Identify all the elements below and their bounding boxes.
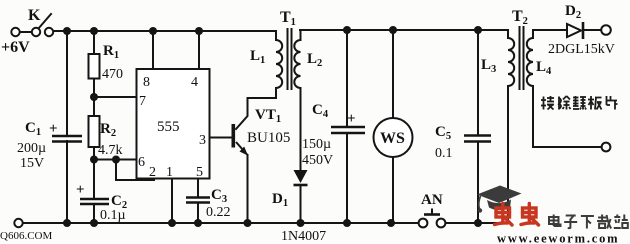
transformer T1 core xyxy=(287,28,289,90)
IC 555 box U1 xyxy=(137,69,210,179)
svg-text:450V: 450V xyxy=(302,153,333,168)
svg-text:1: 1 xyxy=(166,165,173,180)
svg-text:0.1: 0.1 xyxy=(435,146,453,161)
svg-text:D1: D1 xyxy=(272,191,288,209)
char pian xyxy=(607,96,618,110)
svg-text:L2: L2 xyxy=(307,51,322,69)
output terminal top xyxy=(601,25,611,35)
capacitor C2 xyxy=(80,199,109,204)
wire WS bottom xyxy=(392,157,394,223)
svg-text:470: 470 xyxy=(102,67,123,82)
svg-text:+6V: +6V xyxy=(1,39,30,56)
wire C4 top xyxy=(346,30,348,126)
transformer T1 winding L2 xyxy=(294,30,300,88)
capacitor C4 xyxy=(331,127,365,133)
switch K lever xyxy=(38,14,51,29)
svg-text:15V: 15V xyxy=(20,156,44,171)
svg-text:7: 7 xyxy=(139,94,146,109)
char zhan xyxy=(614,215,628,229)
wire C2 bottom xyxy=(93,204,95,223)
svg-text:C4: C4 xyxy=(312,102,329,120)
svg-text:+: + xyxy=(49,121,58,137)
label jie chu chan ban pian (connect defib plates) xyxy=(541,96,618,110)
svg-text:T2: T2 xyxy=(512,8,528,27)
transformer T1 winding L1 xyxy=(276,31,282,98)
svg-text:C1: C1 xyxy=(25,120,41,138)
diode D1 xyxy=(294,170,308,183)
capacitor C1 xyxy=(52,136,82,142)
svg-text:1N4007: 1N4007 xyxy=(281,229,326,244)
svg-text:+: + xyxy=(347,111,356,127)
svg-text:L4: L4 xyxy=(536,59,552,77)
lamp WS xyxy=(374,118,413,157)
svg-text:200µ: 200µ xyxy=(17,141,46,156)
char chan xyxy=(573,96,586,110)
svg-text:5: 5 xyxy=(196,165,203,180)
resistor R2 xyxy=(89,116,100,147)
wire L3 down xyxy=(507,88,509,223)
transformer T2 winding L4 xyxy=(527,30,533,88)
svg-text:4.7k: 4.7k xyxy=(98,143,123,158)
transistor VT1 emitter with arrow xyxy=(236,142,248,155)
wire C5 top xyxy=(477,30,479,135)
svg-text:K: K xyxy=(28,7,41,24)
svg-text:Q606.COM: Q606.COM xyxy=(0,230,52,242)
char zai xyxy=(597,215,611,229)
terminal bottom-left xyxy=(14,219,22,227)
svg-text:VT1: VT1 xyxy=(255,107,281,125)
char dian xyxy=(549,215,561,227)
svg-text:6: 6 xyxy=(138,155,145,170)
wire C4 bottom xyxy=(346,133,348,223)
svg-text:R1: R1 xyxy=(103,43,119,61)
svg-text:0.1µ: 0.1µ xyxy=(100,208,126,223)
watermark graduation cap xyxy=(477,186,522,213)
svg-text:+: + xyxy=(76,182,85,198)
capacitor C5 xyxy=(464,136,491,142)
wire emitter down xyxy=(247,155,249,223)
capacitor C3 xyxy=(186,198,210,203)
char chu xyxy=(559,96,571,110)
wire C1 branch lower xyxy=(66,141,68,223)
svg-text:2DGL15kV: 2DGL15kV xyxy=(548,42,615,57)
wire pin5 to C3 xyxy=(197,179,199,198)
watermark chong chong red characters xyxy=(495,204,539,226)
button AN contacts xyxy=(419,219,428,228)
svg-text:4: 4 xyxy=(191,75,198,90)
wire D1 to rail xyxy=(300,186,302,223)
svg-text:0.22: 0.22 xyxy=(206,205,231,220)
wire C5 bottom xyxy=(477,142,479,223)
wire C3 bottom xyxy=(197,203,199,223)
resistor R1 xyxy=(89,54,100,79)
diode D2 xyxy=(567,24,581,37)
wire R2 bottom to node xyxy=(93,147,95,199)
button AN bar xyxy=(424,213,440,216)
char xia xyxy=(581,216,594,229)
wire top rail right xyxy=(300,29,508,31)
watermark site name dian zi xia zai zhan xyxy=(549,215,628,229)
wire node to pin6 xyxy=(94,159,136,161)
wire R1 top xyxy=(93,31,95,54)
svg-text:8: 8 xyxy=(143,75,150,90)
svg-text:3: 3 xyxy=(199,133,206,148)
wire WS top xyxy=(392,30,394,118)
svg-text:AN: AN xyxy=(421,192,443,208)
output terminal bottom xyxy=(602,143,611,152)
wire L4 to D2 xyxy=(533,29,566,31)
char zi xyxy=(564,216,577,229)
svg-text:L3: L3 xyxy=(481,57,496,75)
wire D2 to terminal xyxy=(585,29,600,31)
svg-text:BU105: BU105 xyxy=(247,130,290,146)
wire top rail left xyxy=(53,30,276,32)
wire node to pin7 xyxy=(94,96,136,98)
svg-text:150µ: 150µ xyxy=(302,137,331,152)
wire pin3 to base xyxy=(210,137,233,139)
switch K circles xyxy=(11,25,611,227)
wire bottom rail xyxy=(23,222,418,224)
wire collector xyxy=(236,98,276,129)
svg-text:C3: C3 xyxy=(211,187,227,205)
svg-text:L1: L1 xyxy=(250,48,265,66)
wire node to pin2 xyxy=(116,160,154,181)
wire R1 bottom to node xyxy=(93,78,95,116)
char jie xyxy=(541,96,554,110)
svg-text:2: 2 xyxy=(149,165,156,180)
svg-text:T1: T1 xyxy=(280,9,296,28)
wire bottom rail after button xyxy=(446,222,508,224)
svg-text:R2: R2 xyxy=(100,121,116,139)
svg-text:555: 555 xyxy=(157,119,180,135)
wire pin4 xyxy=(198,31,200,69)
wire pin1 xyxy=(171,179,173,224)
svg-text:C5: C5 xyxy=(435,124,451,142)
wire battery to switch xyxy=(20,31,32,33)
transistor VT1 base bar xyxy=(232,124,236,148)
svg-text:D2: D2 xyxy=(565,3,581,21)
wire C1 branch upper xyxy=(66,31,68,136)
transformer T2 core xyxy=(519,26,521,90)
svg-text:www.eeworm.com: www.eeworm.com xyxy=(497,232,619,244)
transformer T2 winding L3 xyxy=(508,30,514,88)
wire L4 bottom to terminal xyxy=(533,88,600,147)
wire pin8 xyxy=(152,31,154,69)
char ban xyxy=(588,96,602,110)
svg-text:WS: WS xyxy=(380,130,405,147)
wire L2 to D1 xyxy=(300,88,302,170)
